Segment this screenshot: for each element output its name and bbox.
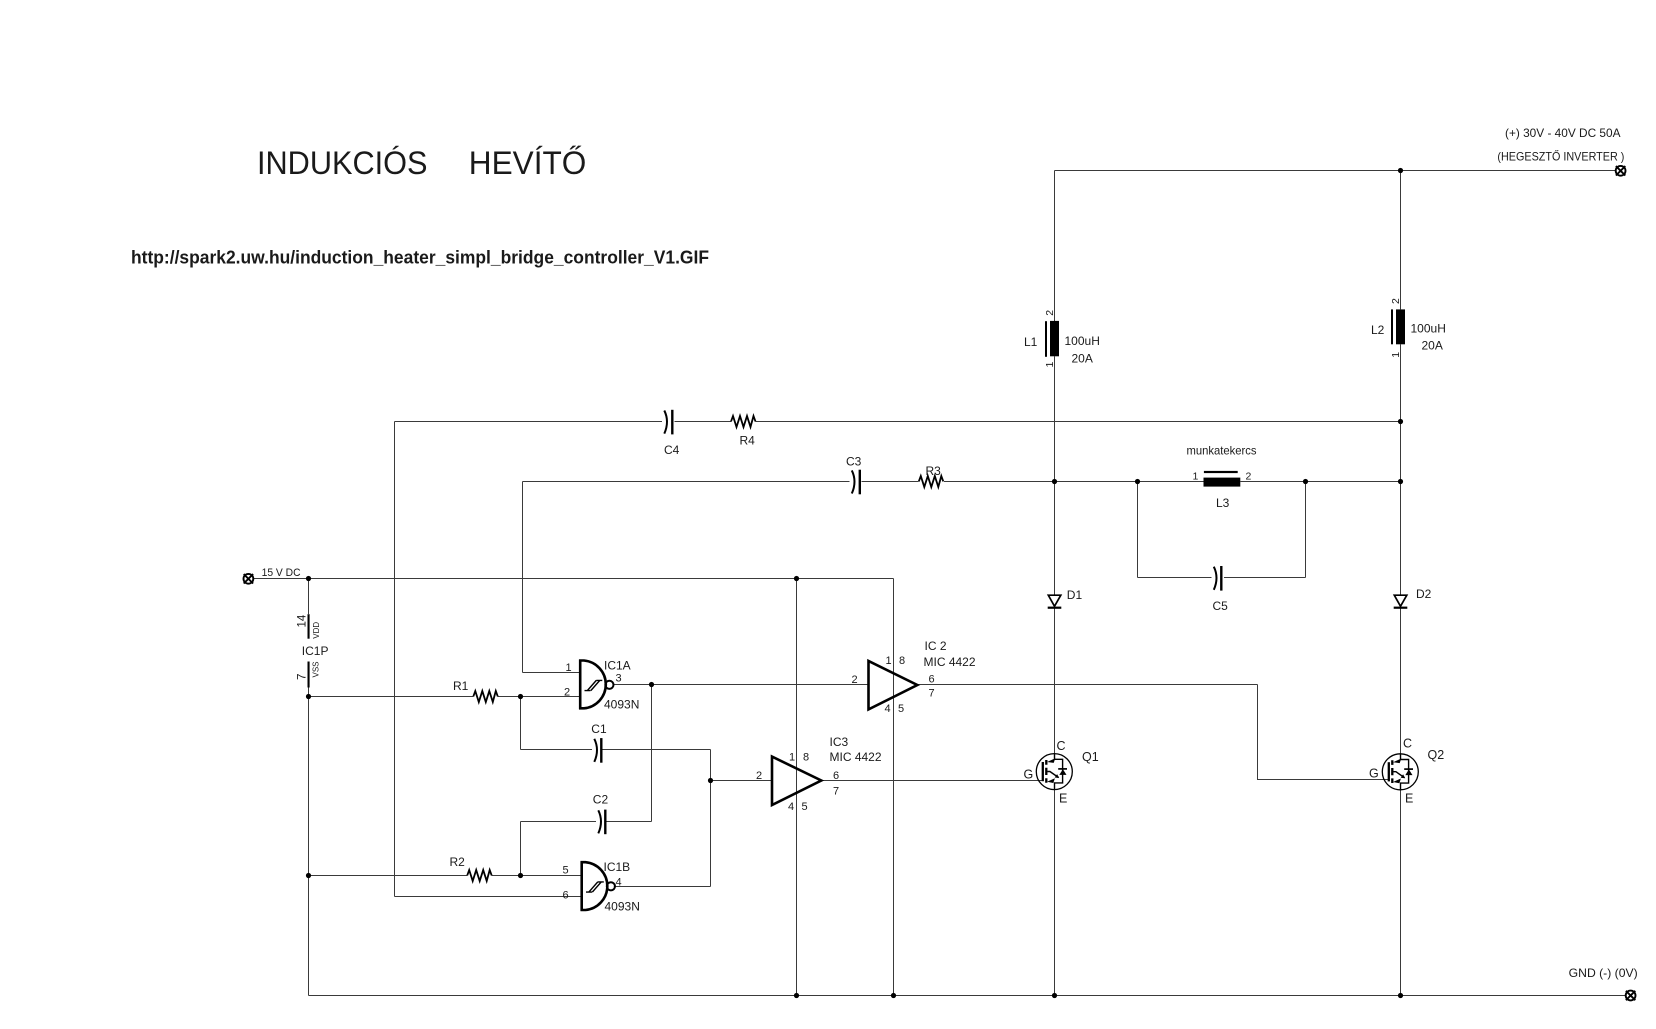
- capacitor C1: [594, 738, 601, 763]
- svg-text:3: 3: [616, 673, 622, 685]
- svg-text:5: 5: [802, 801, 808, 813]
- svg-text:1: 1: [886, 655, 892, 667]
- buffer IC3 MIC4422: [772, 757, 821, 805]
- svg-text:14: 14: [297, 614, 309, 627]
- junction ground / Q2 emitter: [1398, 993, 1403, 998]
- wire vertical L2 Q2 branch: [1400, 171, 1402, 996]
- svg-text:IC1P: IC1P: [302, 644, 329, 658]
- svg-text:R1: R1: [453, 679, 469, 693]
- svg-text:1: 1: [1390, 352, 1402, 358]
- svg-text:(HEGESZTŐ INVERTER ): (HEGESZTŐ INVERTER ): [1497, 150, 1624, 164]
- junction L3 row / Q2 branch: [1398, 479, 1403, 484]
- resistor R2: [467, 870, 492, 881]
- capacitor C5: [1214, 566, 1222, 591]
- wire vertical R1 junction to C1: [520, 697, 522, 750]
- svg-text:C4: C4: [664, 443, 680, 457]
- wire C1 row: [521, 749, 711, 751]
- inductor L1: [1045, 321, 1059, 357]
- wire vertical IC3 supply line: [796, 579, 798, 996]
- svg-text:L2: L2: [1371, 323, 1385, 337]
- wire C5 row: [1138, 577, 1306, 579]
- svg-text:(+) 30V - 40V DC 50A: (+) 30V - 40V DC 50A: [1505, 127, 1621, 140]
- svg-text:6: 6: [833, 770, 839, 782]
- junction IC1A output / C2 branch: [649, 682, 654, 687]
- NAND gate IC1A 4093N: [579, 660, 614, 710]
- wire vertical C5 left leg: [1137, 482, 1139, 578]
- svg-text:1: 1: [566, 662, 572, 674]
- capacitor C3: [852, 470, 860, 495]
- wire IC1B pin6 row: [395, 896, 581, 898]
- svg-text:7: 7: [297, 674, 309, 680]
- wire vertical C3 row to IC1A pin1: [522, 482, 524, 673]
- wire IC2 output corner to Q2 gate: [1258, 685, 1389, 780]
- junction at 15V tap: [306, 576, 311, 581]
- svg-text:GND (-) (0V): GND (-) (0V): [1569, 967, 1638, 980]
- svg-text:2: 2: [564, 687, 570, 699]
- resistor R3: [919, 476, 944, 487]
- svg-text:2: 2: [1246, 471, 1252, 483]
- svg-text:munkatekercs: munkatekercs: [1187, 445, 1257, 458]
- svg-text:R4: R4: [740, 434, 756, 448]
- svg-text:6: 6: [929, 674, 935, 686]
- wire 15V DC row: [254, 578, 894, 580]
- svg-text:L3: L3: [1216, 496, 1230, 510]
- diode D2: [1394, 595, 1408, 609]
- buffer IC2 MIC4422: [869, 661, 918, 709]
- svg-text:IC 2: IC 2: [925, 639, 947, 653]
- junction 15V row / R2 line: [306, 873, 311, 878]
- svg-text:G: G: [1024, 768, 1034, 782]
- junction IC1B output / IC3 input: [708, 778, 713, 783]
- svg-text:100uH: 100uH: [1065, 334, 1100, 348]
- junction ground / IC3 supply: [794, 993, 799, 998]
- inductor L2: [1391, 309, 1405, 344]
- svg-text:C5: C5: [1213, 599, 1229, 613]
- svg-text:D1: D1: [1067, 588, 1083, 602]
- svg-text:VSS: VSS: [312, 661, 321, 677]
- wire IC2 output row: [917, 684, 1257, 686]
- junction L3 row / Q1 branch: [1052, 479, 1057, 484]
- junction ground / Q1 emitter: [1052, 993, 1057, 998]
- svg-text:4: 4: [788, 801, 794, 813]
- inductor L3 munkatekercs: [1204, 471, 1241, 487]
- svg-text:MIC 4422: MIC 4422: [924, 655, 976, 669]
- svg-text:Q2: Q2: [1428, 748, 1445, 762]
- junction L3 row / C5 right: [1303, 479, 1308, 484]
- svg-text:4: 4: [885, 703, 891, 715]
- svg-text:Q1: Q1: [1082, 750, 1099, 764]
- capacitor C4: [664, 410, 672, 435]
- connector (+)30-40V DC input: [1616, 166, 1626, 176]
- svg-text:MIC 4422: MIC 4422: [830, 750, 882, 764]
- svg-text:C: C: [1403, 737, 1412, 751]
- junction 15V row / IC3 supply: [794, 576, 799, 581]
- wire 15V vertical lower segment pin7 to ground: [308, 688, 310, 996]
- svg-text:E: E: [1405, 792, 1413, 806]
- svg-text:7: 7: [929, 688, 935, 700]
- svg-text:D2: D2: [1416, 587, 1432, 601]
- wire R1 row to IC1A pin2: [309, 696, 580, 698]
- svg-text:2: 2: [756, 770, 762, 782]
- wire C2 row: [521, 821, 652, 823]
- svg-text:C2: C2: [593, 793, 609, 807]
- wire vertical IC1A output to C2: [651, 685, 653, 822]
- svg-text:VDD: VDD: [312, 622, 321, 639]
- junction top rail / L2: [1398, 168, 1403, 173]
- svg-text:IC1A: IC1A: [604, 659, 631, 673]
- wire IC1A output to IC2 input: [614, 684, 869, 686]
- NAND gate IC1B 4093N: [581, 861, 616, 911]
- wire vertical C5 right leg: [1305, 482, 1307, 578]
- svg-text:4093N: 4093N: [604, 698, 639, 712]
- svg-text:G: G: [1369, 767, 1379, 781]
- wire IC1B output row: [614, 886, 711, 888]
- IC1P pin 7 VSS stub: [308, 662, 310, 688]
- svg-text:2: 2: [1044, 310, 1056, 316]
- resistor R4: [731, 416, 756, 427]
- capacitor C2: [598, 810, 605, 835]
- svg-text:4093N: 4093N: [605, 900, 640, 914]
- svg-text:IC3: IC3: [830, 735, 849, 749]
- svg-text:C: C: [1057, 739, 1066, 753]
- wire left vertical from C4 down to IC1B pin6: [394, 422, 396, 897]
- junction R2 row / C2 branch: [518, 873, 523, 878]
- svg-text:15 V DC: 15 V DC: [262, 567, 301, 579]
- wire IC3 input row: [711, 780, 773, 782]
- svg-text:6: 6: [563, 890, 569, 902]
- wire 15V vertical upper segment pin14: [308, 579, 310, 615]
- svg-text:http://spark2.uw.hu/induction_: http://spark2.uw.hu/induction_heater_sim…: [131, 247, 709, 268]
- svg-text:R3: R3: [926, 464, 942, 478]
- svg-text:E: E: [1059, 792, 1067, 806]
- svg-text:7: 7: [833, 786, 839, 798]
- svg-text:1: 1: [1044, 362, 1056, 368]
- svg-text:2: 2: [1390, 298, 1402, 304]
- wire top +30-40V rail: [1055, 170, 1616, 172]
- junction L3 row / C5 left: [1135, 479, 1140, 484]
- svg-text:100uH: 100uH: [1411, 322, 1446, 336]
- transistor Q2 IGBT: [1382, 754, 1418, 790]
- wire C4-R4 row: [395, 421, 1401, 423]
- wire IC1A pin1 input: [523, 672, 580, 674]
- svg-text:R2: R2: [450, 855, 466, 869]
- junction ground / IC2 supply: [891, 993, 896, 998]
- wire C3-R3-L3 row: [523, 481, 1401, 483]
- svg-text:C3: C3: [846, 455, 862, 469]
- IC1P pin 14 VDD stub: [308, 614, 310, 639]
- wire ground rail: [309, 995, 1626, 997]
- wire vertical IC2 supply line: [893, 579, 895, 996]
- wire IC3 output to Q1 gate: [821, 780, 1042, 782]
- svg-text:INDUKCIÓS: INDUKCIÓS: [257, 144, 428, 181]
- svg-text:1: 1: [1193, 471, 1199, 483]
- connector 15V DC input: [244, 574, 254, 584]
- svg-text:2: 2: [852, 674, 858, 686]
- svg-text:IC1B: IC1B: [604, 860, 631, 874]
- transistor Q1 IGBT: [1036, 754, 1072, 790]
- junction C4 row / Q2 branch: [1398, 419, 1403, 424]
- diode D1: [1048, 595, 1062, 609]
- wire R2 row to IC1B pin5: [309, 875, 581, 877]
- svg-text:1: 1: [789, 752, 795, 764]
- wire vertical C1 to IC1B output: [710, 750, 712, 887]
- svg-text:5: 5: [563, 865, 569, 877]
- svg-text:C1: C1: [591, 722, 607, 736]
- wire vertical L1 Q1 branch: [1054, 171, 1056, 996]
- svg-text:8: 8: [899, 655, 905, 667]
- svg-text:20A: 20A: [1072, 352, 1093, 366]
- svg-text:8: 8: [803, 752, 809, 764]
- svg-text:L1: L1: [1024, 335, 1038, 349]
- wire vertical C2 to R2 junction: [520, 822, 522, 876]
- junction R1 row / C1 branch: [518, 694, 523, 699]
- resistor R1: [473, 691, 498, 702]
- junction 15V row / pin7 line: [306, 694, 311, 699]
- svg-text:HEVÍTŐ: HEVÍTŐ: [469, 144, 587, 181]
- connector GND output: [1626, 991, 1636, 1001]
- svg-text:5: 5: [898, 703, 904, 715]
- svg-text:4: 4: [616, 877, 622, 889]
- svg-text:20A: 20A: [1422, 339, 1443, 353]
